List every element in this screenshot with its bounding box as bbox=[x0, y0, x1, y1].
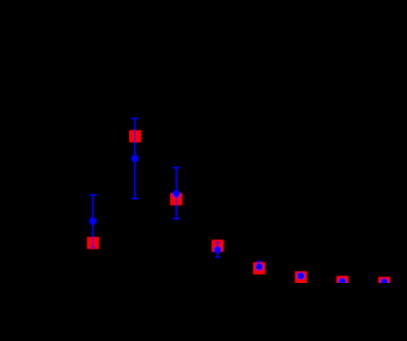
data point 1: blue circle marker bbox=[89, 217, 97, 225]
data point 3: blue circle marker bbox=[172, 190, 180, 198]
data point 8: blue circle marker bbox=[380, 278, 388, 286]
data point 8: red square marker bbox=[378, 277, 390, 289]
data point 7: red square marker bbox=[336, 276, 348, 288]
data point 4: blue circle marker bbox=[214, 246, 222, 254]
data point 7: blue circle marker bbox=[339, 278, 347, 286]
data point 5: blue error bar bbox=[253, 262, 265, 275]
data point 1: red square marker bbox=[87, 237, 99, 249]
data point 5: blue circle marker bbox=[255, 263, 263, 271]
data point 4: red square marker bbox=[212, 240, 224, 252]
data point 3: red square marker bbox=[170, 193, 182, 205]
data point 3: blue error bar bbox=[170, 168, 182, 219]
data point 2: blue error bar bbox=[129, 119, 141, 199]
data point 6: blue circle marker bbox=[297, 272, 305, 280]
data point 5: red square marker bbox=[253, 262, 265, 274]
data point 4: blue error bar bbox=[212, 240, 224, 258]
data point 2: red square marker bbox=[129, 130, 141, 142]
data point 2: blue circle marker bbox=[131, 155, 139, 163]
data point 6: red square marker bbox=[295, 271, 307, 283]
data point 1: blue error bar bbox=[87, 195, 99, 249]
